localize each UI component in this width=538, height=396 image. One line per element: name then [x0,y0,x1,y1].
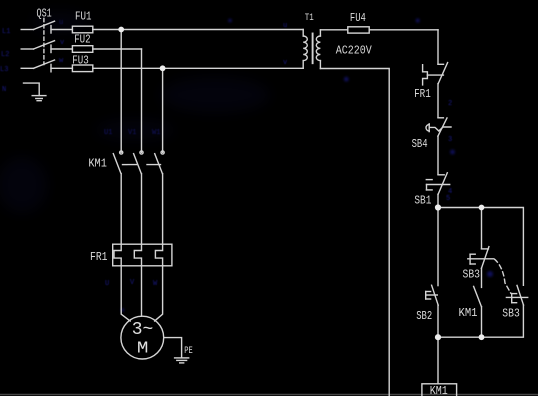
svg-text:KM1: KM1 [459,307,478,320]
svg-text:FU1: FU1 [75,11,92,24]
svg-text:N: N [2,86,6,94]
svg-text:QS1: QS1 [37,8,52,21]
svg-text:U: U [105,280,109,288]
svg-text:L2: L2 [1,51,9,59]
svg-text:FU2: FU2 [74,34,91,47]
svg-text:KM1: KM1 [88,158,107,171]
svg-text:v: v [283,59,287,67]
svg-text:KM1: KM1 [430,385,448,396]
svg-text:FR1: FR1 [90,251,108,264]
svg-text:FR1: FR1 [414,88,431,101]
svg-text:v: v [60,39,64,47]
svg-text:T1: T1 [305,13,314,24]
svg-text:5: 5 [446,195,450,203]
svg-text:AC220V: AC220V [336,44,373,58]
svg-text:FU4: FU4 [350,12,366,25]
svg-text:SB2: SB2 [416,310,432,323]
svg-text:L1: L1 [2,28,10,36]
svg-text:L3: L3 [0,66,8,74]
svg-text:SB1: SB1 [414,195,431,208]
svg-text:SB4: SB4 [412,138,428,151]
svg-text:SB3: SB3 [463,269,481,282]
svg-text:PE: PE [184,346,193,357]
svg-text:M: M [137,340,149,359]
svg-text:3~: 3~ [132,320,154,340]
svg-text:SB3: SB3 [502,308,520,321]
svg-text:FU3: FU3 [72,54,89,67]
svg-text:2: 2 [448,100,452,108]
svg-text:3: 3 [448,136,452,144]
